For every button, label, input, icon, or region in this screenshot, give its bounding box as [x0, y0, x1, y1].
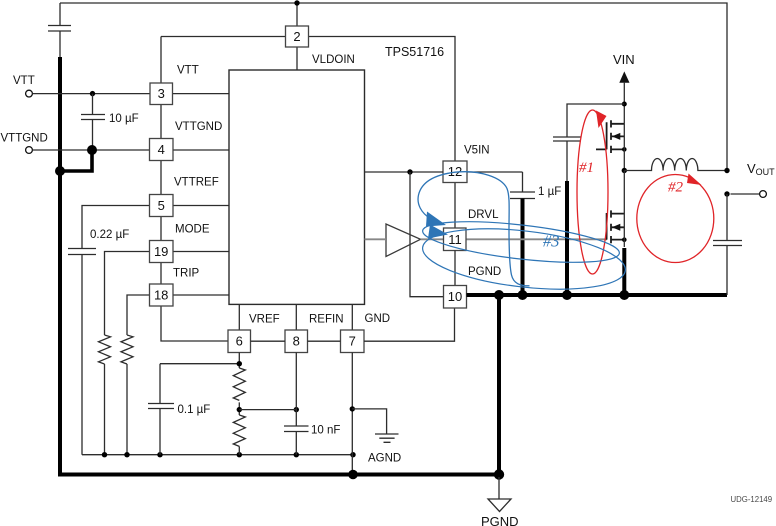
node VTTGND terminal [26, 147, 33, 154]
blue loop #3 big ellipse upper [421, 214, 622, 270]
svg-text:AGND: AGND [368, 453, 401, 465]
svg-text:VLDOIN: VLDOIN [312, 54, 355, 66]
wire pin11-pin10 [454, 251, 456, 286]
svg-text:DRVL: DRVL [468, 209, 499, 221]
pin 18 box [150, 284, 174, 306]
svg-text:8: 8 [293, 334, 300, 349]
pin 5 box [150, 195, 174, 217]
svg-text:REFIN: REFIN [309, 314, 344, 326]
wire MODE branch + resistor R-mode [99, 252, 150, 455]
svg-text:11: 11 [448, 232, 462, 247]
wire V5IN row [365, 171, 523, 173]
svg-text:19: 19 [154, 244, 168, 259]
op-amp driver triangle [386, 224, 421, 257]
wire pin5 to IC [173, 205, 229, 207]
ground PGND symbol [488, 477, 511, 512]
pin 10 box [444, 286, 467, 309]
svg-text:0.1 µF: 0.1 µF [178, 404, 211, 416]
svg-text:3: 3 [158, 86, 165, 101]
red loop #1 arrow [596, 111, 607, 129]
pin 4 box [150, 139, 174, 161]
node junction top rail [294, 0, 299, 5]
pin 7 box + stub [341, 304, 365, 352]
capacitor C-out output [713, 194, 742, 295]
wire thick VTTGND dogleg to ground rail [60, 150, 92, 171]
wire thick input cap to bus [565, 181, 569, 295]
svg-text:2: 2 [293, 29, 300, 44]
resistor R1 refin upper [233, 368, 245, 415]
wire VTT row [33, 93, 151, 95]
node junction VTT/10uF [90, 91, 95, 96]
svg-text:VTTGND: VTTGND [175, 121, 222, 133]
wire GND pin7 down [351, 353, 353, 475]
svg-text:7: 7 [349, 334, 356, 349]
wire refin mid to pin8 [239, 409, 296, 411]
resistor R2 refin lower [233, 415, 245, 455]
wire pin18 to IC [173, 294, 229, 296]
node junction pin7 agnd [350, 406, 355, 411]
svg-text:1 µF: 1 µF [538, 186, 561, 198]
op-amp/IC U1 TPS51716 body [229, 70, 365, 304]
svg-text:5: 5 [158, 198, 165, 213]
wire pin19 to IC [173, 251, 229, 253]
svg-text:VTTGND: VTTGND [1, 133, 48, 145]
svg-text:V5IN: V5IN [464, 145, 490, 157]
svg-text:VIN: VIN [613, 52, 635, 67]
svg-text:4: 4 [158, 142, 165, 157]
svg-text:GND: GND [365, 313, 391, 325]
pin 8 box + stub [285, 304, 308, 352]
svg-text:#2: #2 [668, 180, 684, 196]
pin 12 box + stubs [443, 161, 467, 228]
svg-text:6: 6 [236, 334, 243, 349]
wire pin3 to IC [173, 93, 230, 95]
capacitor C1 10uF [81, 94, 105, 150]
wire thick ground left rail and bottom bus [58, 57, 499, 475]
svg-text:10 µF: 10 µF [109, 113, 139, 125]
wire thick 1uF to pgnd bus [521, 199, 525, 296]
svg-text:UDG-12149: UDG-12149 [731, 495, 773, 504]
node junction v5in [407, 169, 412, 174]
svg-text:PGND: PGND [481, 514, 519, 526]
node junctions vout [724, 168, 729, 197]
wire TRIP branch + resistor R-trip [121, 295, 150, 455]
pin 3 box [150, 83, 173, 105]
wire driver return x410 [410, 172, 444, 297]
wire q1 drain-source rail [623, 124, 625, 171]
svg-text:VOUT: VOUT [747, 161, 775, 177]
red loop #2 arrow [687, 174, 702, 186]
transistor Q1 body diode arrow [612, 133, 620, 140]
wire thick q2 source to bus [622, 248, 626, 295]
wire bottom AGND net [82, 454, 353, 456]
svg-text:10 nF: 10 nF [311, 425, 340, 437]
svg-text:VTT: VTT [13, 75, 35, 87]
wire VIN line [623, 82, 625, 124]
blue loop #3 big ellipse lower [419, 220, 628, 299]
svg-text:#3: #3 [543, 232, 560, 251]
svg-text:0.22 µF: 0.22 µF [90, 229, 129, 241]
blue arrows [426, 212, 448, 239]
capacitor C5 1uF [510, 172, 535, 199]
blue loop #3 small driver loop [418, 172, 529, 286]
red loop #2 [637, 175, 714, 263]
wire pin column connector [161, 37, 228, 342]
transistor Q2 low-side FET [607, 210, 625, 243]
svg-text:10: 10 [448, 289, 462, 304]
wire VREF branch [148, 353, 239, 455]
node junction vin/cap [622, 102, 627, 107]
svg-text:VREF: VREF [249, 314, 280, 326]
ground AGND symbol [352, 409, 398, 442]
svg-text:MODE: MODE [175, 224, 210, 236]
svg-text:TPS51716: TPS51716 [385, 45, 444, 59]
node VTT terminal [26, 90, 33, 97]
transistor Q2 body diode arrow [612, 224, 620, 231]
svg-text:PGND: PGND [468, 266, 501, 278]
pin 11 box [444, 228, 467, 251]
capacitor C4 10nF [284, 353, 309, 455]
pin 2 box [286, 3, 309, 70]
wire pin6-pin8-pin7 row [251, 340, 341, 342]
pin 6 box + stub [228, 304, 251, 352]
wire pin4 to IC [173, 149, 229, 151]
wire VTTGND row [33, 149, 150, 151]
svg-text:VTTREF: VTTREF [174, 177, 219, 189]
node VOUT terminal [731, 191, 767, 198]
wire GND pin7 to PGND pin10 [364, 308, 455, 341]
node junction q1 source [622, 147, 627, 152]
svg-text:18: 18 [154, 288, 168, 303]
capacitor C-in input [553, 104, 624, 181]
node junction VTTGND [55, 145, 97, 176]
node junctions on PGND bus [348, 290, 629, 480]
node junctions vref [237, 361, 299, 412]
svg-text:#1: #1 [579, 160, 594, 176]
wire thick PGND drop [497, 295, 501, 475]
wire q2 drain rail [623, 171, 625, 248]
svg-text:VTT: VTT [177, 65, 199, 77]
red loop #1 [577, 110, 608, 274]
wire VTTREF branch [68, 206, 150, 455]
inductor L1 [624, 159, 727, 171]
pin 19 box [150, 241, 174, 263]
wire thick PGND bus [467, 293, 728, 297]
wire VLDOIN row y36 [161, 37, 455, 162]
wire gray DRVL net [365, 238, 608, 240]
svg-text:TRIP: TRIP [173, 268, 200, 280]
node junction q2 source [622, 237, 627, 242]
node SW junction [622, 168, 627, 173]
wire top VLDOIN rail to VOUT node [60, 3, 727, 171]
node junctions on AGND net [102, 452, 356, 457]
VIN arrow [619, 71, 629, 82]
transistor Q1 high-side FET [596, 120, 624, 153]
capacitor C-vldoin (top-left bypass) [48, 3, 71, 57]
